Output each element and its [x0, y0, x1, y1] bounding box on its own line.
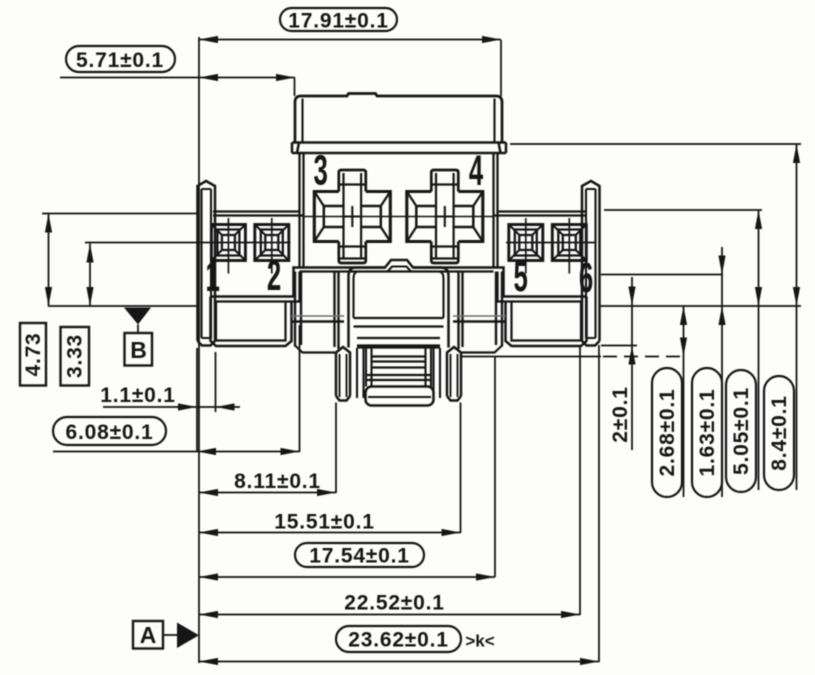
svg-text:5.05±0.1: 5.05±0.1 — [730, 387, 753, 475]
svg-text:1.63±0.1: 1.63±0.1 — [696, 389, 719, 477]
svg-text:>k<: >k< — [465, 632, 494, 651]
svg-text:2±0.1: 2±0.1 — [609, 386, 632, 442]
svg-text:2.68±0.1: 2.68±0.1 — [656, 389, 679, 477]
svg-text:B: B — [130, 337, 147, 363]
svg-text:5: 5 — [514, 252, 528, 301]
svg-text:4: 4 — [469, 146, 484, 195]
svg-text:1.1±0.1: 1.1±0.1 — [100, 384, 176, 407]
svg-text:22.52±0.1: 22.52±0.1 — [344, 592, 444, 615]
svg-text:15.51±0.1: 15.51±0.1 — [274, 511, 374, 534]
svg-text:6.08±0.1: 6.08±0.1 — [66, 421, 154, 444]
svg-text:8.11±0.1: 8.11±0.1 — [234, 470, 321, 493]
svg-text:A: A — [140, 622, 157, 648]
svg-text:17.91±0.1: 17.91±0.1 — [288, 10, 388, 33]
svg-text:2: 2 — [267, 251, 281, 300]
svg-text:1: 1 — [206, 252, 220, 301]
svg-text:4.73: 4.73 — [22, 332, 45, 376]
svg-text:23.62±0.1: 23.62±0.1 — [348, 629, 448, 652]
svg-text:6: 6 — [579, 253, 593, 302]
svg-text:3.33: 3.33 — [64, 334, 87, 378]
svg-text:8.4±0.1: 8.4±0.1 — [768, 395, 791, 471]
svg-text:17.54±0.1: 17.54±0.1 — [309, 545, 409, 568]
svg-text:3: 3 — [314, 146, 328, 195]
svg-text:5.71±0.1: 5.71±0.1 — [76, 49, 164, 72]
